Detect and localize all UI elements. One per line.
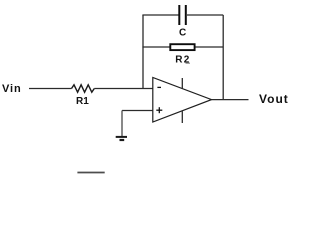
svg-text:C: C bbox=[179, 28, 186, 39]
capacitor C bbox=[179, 5, 186, 25]
resistor R2 (box style) bbox=[170, 44, 194, 50]
ground bbox=[116, 137, 127, 140]
wire output bbox=[212, 99, 249, 101]
svg-text:Vout: Vout bbox=[259, 92, 289, 106]
op-amp inverting input minus sign bbox=[157, 86, 161, 88]
power pin top bbox=[181, 78, 183, 89]
wire R2 left bbox=[142, 46, 169, 48]
artifact dash under R2 label bbox=[186, 62, 191, 64]
wire Vin to R1 bbox=[29, 88, 72, 90]
power pin bottom bbox=[181, 111, 183, 123]
wire feedback left vertical bbox=[142, 15, 144, 89]
op-amp U1 triangle bbox=[153, 78, 212, 123]
wire R1 to inverting input bbox=[94, 88, 152, 90]
resistor R1 bbox=[72, 85, 95, 92]
wire top feedback left segment bbox=[142, 14, 178, 16]
op-amp non-inverting input plus sign bbox=[156, 107, 162, 113]
wire down to ground bbox=[121, 111, 123, 137]
stray underline mark bottom-left bbox=[77, 172, 104, 174]
wire top feedback right segment bbox=[187, 14, 223, 16]
svg-text:Vin: Vin bbox=[2, 83, 22, 95]
wire feedback right vertical bbox=[222, 15, 224, 100]
svg-text:R1: R1 bbox=[76, 96, 89, 107]
wire R2 right bbox=[195, 46, 223, 48]
wire non-inverting input bbox=[122, 110, 153, 112]
